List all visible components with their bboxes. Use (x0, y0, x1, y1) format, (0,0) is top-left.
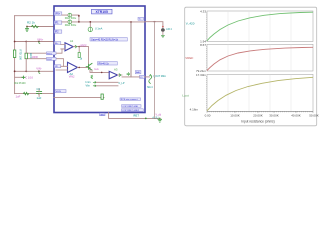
svg-text:Input resistance (ohms): Input resistance (ohms) (241, 119, 274, 123)
pin box IRET (54, 30, 62, 34)
svg-text:XTR105: XTR105 (95, 10, 108, 14)
wire A2 inputs (56, 66, 68, 70)
svg-text:VIN+: VIN+ (55, 14, 61, 16)
svg-text:1uF: 1uF (16, 95, 21, 99)
pin box BAL (135, 71, 141, 75)
svg-text:4.16m: 4.16m (190, 107, 199, 111)
wire Q1 collector (91, 70, 93, 72)
wire pins to sources (62, 15, 68, 22)
svg-text:V_420: V_420 (186, 22, 195, 26)
svg-text:Vlin: Vlin (86, 84, 91, 88)
annotation box note3 (120, 98, 141, 101)
pin box VIN+ top (54, 12, 62, 16)
svg-text:Imin: Imin (86, 80, 91, 84)
wire IRET drop (109, 113, 161, 119)
svg-text:A3: A3 (114, 68, 118, 72)
node dot A2 out (78, 67, 80, 69)
svg-text:4.33: 4.33 (200, 10, 206, 14)
svg-text:50.00K: 50.00K (309, 114, 319, 118)
wire bottom rail (15, 93, 54, 95)
svg-text:COP RRET GND2: COP RRET GND2 (122, 110, 140, 112)
pin box IO right (140, 75, 145, 79)
svg-text:IREF 800u: IREF 800u (65, 17, 77, 20)
svg-text:IREF 800u: IREF 800u (65, 24, 77, 27)
current source I3 (88, 27, 92, 31)
pin box RG2 (47, 57, 57, 60)
figure frame (185, 7, 317, 126)
annotation box note2 (98, 62, 118, 65)
svg-text:VIN+: VIN+ (37, 38, 44, 42)
x tick labels (205, 114, 319, 118)
resistor RE below Q1 (91, 75, 93, 78)
svg-text:RG2: RG2 (47, 59, 52, 61)
svg-text:LIR 4: LIR 4 (166, 29, 172, 31)
wire V+ top rail inside (79, 21, 145, 23)
wire interior bottom rail (54, 97, 104, 99)
svg-text:MA 4: MA 4 (147, 86, 153, 89)
voltage source VPS (161, 28, 164, 31)
svg-text:1uF: 1uF (37, 96, 42, 100)
resistor R1 (to ground sense wire) (32, 25, 39, 27)
svg-text:10.00K: 10.00K (230, 114, 240, 118)
resistor RG (gain) (25, 53, 27, 59)
svg-text:IO: IO (140, 77, 143, 79)
annotation box note1 (90, 38, 127, 41)
svg-text:VREF: VREF (185, 56, 193, 60)
wire cap stub (15, 76, 24, 78)
node dot A3 in (101, 72, 103, 74)
XTR105 title label (92, 9, 113, 14)
wire RG upper (26, 52, 54, 54)
resistor R4 (bottom rail) (24, 92, 29, 94)
pin box VLIN (55, 90, 66, 94)
svg-text:100R: 100R (32, 55, 38, 59)
resistor R3 interior (78, 47, 80, 53)
wire I3 hang (89, 22, 91, 27)
pin box A1 in+ (54, 42, 61, 45)
pin box A2 in (54, 65, 61, 68)
wire RG1 interior (56, 49, 65, 53)
capacitor C1 (across rails) (37, 92, 42, 94)
svg-text:I_out: I_out (182, 94, 189, 98)
pin box IR1 (54, 21, 62, 25)
wire top rail VIN+ (15, 15, 54, 17)
current source I1 (68, 13, 72, 17)
wire RG2 interior (56, 59, 64, 67)
svg-text:R6=40 1k: R6=40 1k (99, 62, 110, 65)
svg-text:VLIN: VLIN (56, 91, 61, 93)
trace V_420 green (207, 12, 313, 41)
node dot V+ branch (130, 21, 132, 23)
viewpoint VIN+ flag (39, 42, 40, 44)
op-amp box XTR105 outline (54, 6, 145, 113)
annotation box note5 (121, 109, 143, 112)
node dot V+ ext (154, 21, 156, 23)
wire loop return vertical (154, 22, 156, 119)
annotation box note4 (122, 105, 142, 108)
svg-text:A_0U: A_0U (152, 116, 158, 119)
panel 3 y ticks (206, 76, 207, 110)
wire V+ branch vertical (130, 22, 132, 77)
svg-text:I_OUT 4MA: I_OUT 4MA (153, 75, 166, 78)
svg-text:30.00K: 30.00K (269, 114, 279, 118)
svg-text:RTD 100: RTD 100 (19, 50, 23, 61)
svg-text:8.67: 8.67 (200, 43, 206, 47)
svg-text:40.00K: 40.00K (291, 114, 301, 118)
wire V+ external (145, 22, 163, 28)
svg-text:C 1/16: C 1/16 (25, 75, 33, 79)
svg-text:C_LP: C_LP (119, 82, 125, 85)
node junction dots left (14, 26, 40, 95)
node dot bottom (145, 118, 147, 120)
wire A2 output to A3 (78, 67, 110, 72)
svg-text:U 1mA: U 1mA (95, 28, 103, 31)
pin box IRET bottom (100, 113, 106, 116)
wire A1 output (73, 47, 88, 64)
panel 2 frame (207, 44, 313, 71)
trace VREF red (207, 47, 313, 70)
wire ground sense (27, 26, 54, 28)
pin box RG1 (47, 52, 57, 55)
wire mid rail upper (15, 41, 54, 43)
panel 2 y ticks (206, 46, 207, 69)
op-amp A1 (65, 43, 73, 51)
wire IO external (145, 76, 150, 78)
svg-text:Rtd Pt100: Rtd Pt100 (14, 82, 26, 85)
wire RG vertical links (25, 42, 27, 72)
pin box V+ right (138, 17, 144, 20)
capacitor CLP (127, 72, 130, 75)
svg-text:VIN2: VIN2 (69, 74, 75, 78)
svg-text:R2 1k: R2 1k (27, 21, 35, 25)
panel 3 frame (207, 74, 313, 111)
wire left rail (14, 16, 16, 94)
svg-text:RCS wire connect: RCS wire connect (121, 98, 138, 101)
probe A1 out (75, 45, 77, 48)
node dots V+ rail (78, 15, 91, 23)
svg-text:RG1: RG1 (47, 53, 52, 55)
svg-text:17.33m: 17.33m (196, 73, 207, 77)
svg-text:VREF: VREF (80, 45, 87, 48)
wire annotation nets (96, 82, 118, 86)
probe IOUT (149, 75, 152, 84)
probe A3 out (119, 74, 121, 77)
wire VPS to gnd (162, 32, 164, 36)
wire A3 output to IO pin (118, 75, 140, 77)
svg-text:COP RRET GND: COP RRET GND (122, 106, 138, 108)
current source I2 (68, 20, 72, 24)
ground VPS (161, 35, 164, 37)
node dot A1 out (78, 46, 80, 48)
resistor R7 interior (101, 94, 103, 99)
wire mid rail lower (15, 70, 54, 72)
op-amp A2 (68, 62, 78, 72)
ground RL return (158, 118, 162, 122)
capacitor C2 (stub) (22, 76, 25, 79)
resistor RTD (in left rail) (13, 50, 15, 58)
svg-text:GND: GND (100, 114, 105, 116)
svg-text:0.00: 0.00 (205, 114, 211, 118)
svg-text:A1: A1 (70, 39, 74, 43)
wire RG lower (26, 58, 54, 60)
transistor Q1 (86, 63, 92, 70)
wire A1 inputs (54, 43, 65, 49)
svg-text:1uA: 1uA (94, 68, 99, 71)
ground (left sense) (25, 27, 28, 32)
svg-text:C1: C1 (37, 87, 41, 91)
panel 1 y ticks (206, 13, 207, 40)
svg-text:VIN-: VIN- (36, 67, 42, 71)
svg-text:20.00K: 20.00K (253, 114, 263, 118)
wire sources to V+ rail (72, 15, 79, 22)
x axis ticks (207, 110, 313, 112)
panel 1 frame (207, 11, 313, 42)
trace I_out olive (207, 77, 313, 111)
svg-text:IRET: IRET (133, 114, 139, 118)
viewpoint VIN- flag (39, 71, 40, 73)
svg-text:Gain=40 R5=25 RLIN=1k: Gain=40 R5=25 RLIN=1k (91, 38, 119, 41)
op-amp A3 (109, 71, 117, 79)
